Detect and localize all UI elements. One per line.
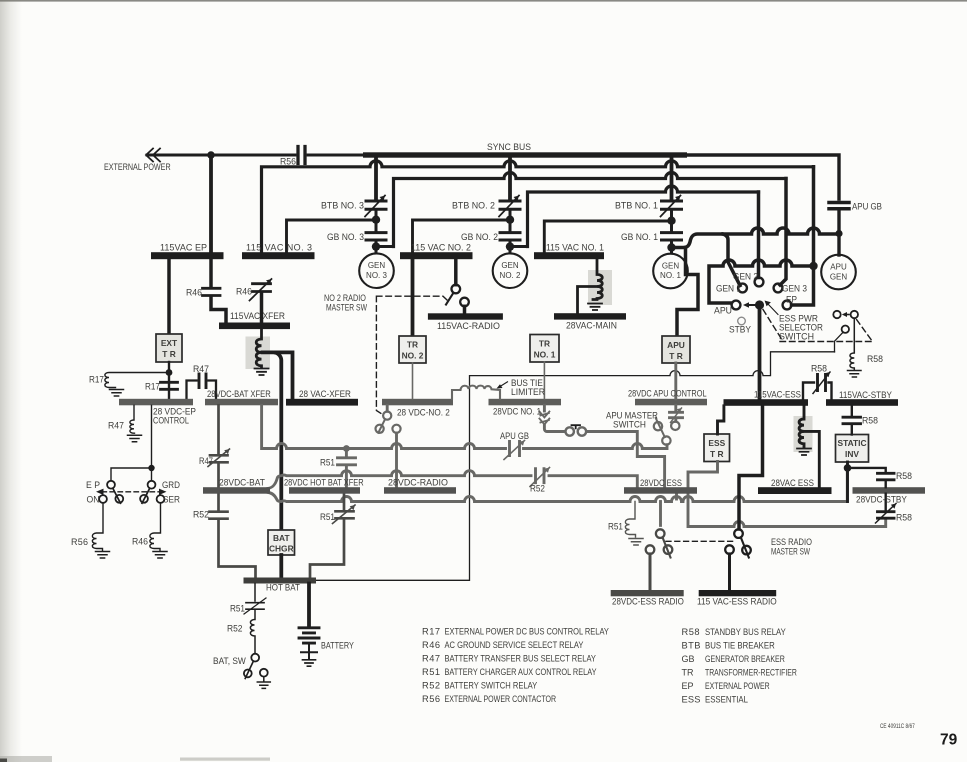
svg-text:R58: R58	[896, 512, 912, 522]
node gnd service	[148, 465, 154, 471]
svg-text:ON: ON	[87, 494, 100, 504]
wire BTB3-GB3	[375, 210, 378, 231]
generator GEN NO. 2	[493, 253, 528, 288]
wire rail B from 28VDC-BAT bus	[268, 471, 637, 489]
generator breaker APU GB	[829, 203, 849, 209]
relay coil R47 (EP control)	[130, 405, 135, 433]
svg-text:LIMITER: LIMITER	[511, 387, 545, 397]
svg-text:115 VAC-ESS RADIO: 115 VAC-ESS RADIO	[697, 596, 777, 606]
svg-text:APU: APU	[830, 263, 847, 272]
svg-text:BTB NO. 3: BTB NO. 3	[321, 200, 364, 210]
svg-text:EXTERNAL POWER: EXTERNAL POWER	[705, 681, 770, 691]
node GB1 out	[667, 243, 675, 251]
svg-text:CHGR: CHGR	[269, 544, 294, 554]
svg-text:STATIC: STATIC	[838, 438, 867, 448]
svg-text:R56: R56	[280, 156, 296, 166]
svg-text:28VDC HOT BAT XFER: 28VDC HOT BAT XFER	[284, 478, 364, 488]
switch ESS radio master AC	[734, 529, 743, 538]
svg-text:NO. 3: NO. 3	[366, 271, 387, 280]
svg-text:R46: R46	[186, 287, 202, 297]
svg-text:GENERATOR BREAKER: GENERATOR BREAKER	[705, 654, 785, 664]
wire rail A from BAT XFER bus	[262, 405, 667, 448]
switch APU master	[671, 422, 679, 430]
relay coil R46 + ground	[150, 503, 161, 551]
selector contact GEN 2	[755, 278, 764, 287]
svg-text:GEN: GEN	[501, 261, 519, 270]
svg-text:BAT, SW: BAT, SW	[213, 656, 247, 666]
svg-text:R58: R58	[896, 471, 912, 481]
svg-text:NO. 1: NO. 1	[660, 271, 681, 280]
switch EP/ON	[107, 481, 115, 489]
transformer-rectifier TR NO. 1 box	[530, 335, 559, 363]
wire gen2 tie line y192	[528, 186, 759, 247]
bus 28 VDC-EP CONTROL	[119, 399, 193, 406]
svg-text:115VAC-ESS: 115VAC-ESS	[754, 389, 801, 400]
svg-text:BTB: BTB	[682, 641, 701, 651]
bus 28 VAC-XFER	[286, 399, 358, 406]
svg-text:R58: R58	[811, 363, 827, 373]
bus 28VDC-BAT	[203, 487, 270, 494]
svg-text:CE 40911C 8/67: CE 40911C 8/67	[880, 723, 915, 730]
wire GB1 to GEN1	[670, 240, 673, 253]
svg-text:R17: R17	[89, 374, 104, 384]
svg-text:APU: APU	[714, 305, 732, 315]
svg-text:R51: R51	[320, 457, 335, 467]
svg-text:R51: R51	[320, 512, 335, 522]
relay coil R58 (stby)	[850, 318, 854, 369]
selector contact STBY	[738, 317, 746, 325]
wire 115VAC-ESS to ESS radio switch	[739, 406, 763, 529]
wire to 28VDC-ESS RADIO bus	[649, 554, 652, 590]
relay coil R56 + ground	[92, 503, 103, 551]
node BTB3/GB3	[372, 216, 380, 224]
svg-text:GRD: GRD	[162, 480, 180, 491]
svg-text:R56: R56	[71, 537, 88, 547]
ground (battery)	[303, 660, 316, 666]
bus 28VAC ESS	[758, 487, 832, 494]
wire bus no3 riser to BTB3 node	[287, 220, 376, 252]
relay contact R51 (bat sw chain)	[254, 584, 256, 602]
wire rail C to ESS radio DC switch	[659, 502, 662, 526]
svg-text:R47: R47	[422, 654, 440, 664]
svg-text:R17: R17	[145, 381, 160, 391]
ground (R47 coil)	[128, 435, 142, 442]
wire gen1 branch to selector	[723, 234, 740, 286]
bus 115 VAC NO. 3	[242, 252, 315, 259]
ground (BAT SW)	[257, 677, 270, 689]
generator GEN NO. 3	[359, 253, 394, 288]
wire no2 bus to TR NO 2	[411, 259, 415, 336]
mech dashed link EP-GRD	[102, 491, 160, 493]
transformer-rectifier ESS TR box	[704, 434, 730, 462]
switch GRD/SER	[148, 481, 156, 489]
svg-text:E P: E P	[86, 480, 100, 490]
svg-text:SER: SER	[163, 494, 180, 504]
bus 28VDC APU CONTROL	[635, 399, 707, 406]
relay contact R52 (BAT bus to HOT BAT)	[217, 494, 220, 510]
svg-text:NO. 1: NO. 1	[534, 350, 556, 360]
wire gen3 tie line y178.5	[394, 173, 787, 247]
wire TR NO 2 to bus	[412, 363, 414, 399]
svg-text:79: 79	[940, 732, 958, 749]
svg-text:28VAC ESS: 28VAC ESS	[771, 477, 814, 488]
wire XFER tap to chgr and 28VAC-XFER	[263, 352, 282, 530]
ground (MAIN transformer)	[588, 304, 602, 311]
relay contact R51 to HOT BAT XFER bus	[338, 449, 356, 488]
transformer-rectifier EXT TR box	[156, 334, 182, 362]
wire GB3 to GEN3	[375, 240, 378, 253]
selector contact GEN 3	[774, 284, 783, 293]
svg-text:SWITCH: SWITCH	[613, 419, 646, 429]
bus 115 VAC NO. 1	[534, 252, 604, 259]
relay contact (APU master, arrow)	[670, 412, 683, 417]
arrow bus tie limiter	[500, 382, 508, 387]
bus 28VDC HOT BAT XFER	[289, 487, 360, 494]
svg-text:NO. 2: NO. 2	[500, 271, 521, 280]
wire ESS tap to 28VAC ESS bus	[805, 431, 819, 487]
svg-text:28VDC-ESS RADIO: 28VDC-ESS RADIO	[612, 596, 684, 607]
wire BTB1-GB1	[670, 210, 673, 231]
svg-text:R17: R17	[422, 627, 440, 637]
node external power tap	[207, 151, 215, 159]
svg-text:INV: INV	[845, 449, 859, 459]
ground (XFER transformer)	[255, 369, 269, 376]
node APU GB / gen tie	[835, 230, 842, 237]
contact R58 (to 28VDC-STBY)	[848, 468, 886, 472]
svg-text:GEN 1: GEN 1	[716, 283, 741, 293]
wire sync drop gen1	[670, 157, 674, 199]
svg-text:STBY: STBY	[729, 324, 751, 334]
svg-text:EP: EP	[786, 294, 797, 304]
svg-text:115VAC EP: 115VAC EP	[160, 243, 207, 253]
selector wiper arrow to APU	[747, 304, 755, 306]
wire EP control bus to gnd service switch	[111, 405, 152, 480]
svg-text:HOT BAT: HOT BAT	[266, 582, 300, 593]
svg-text:BTB NO. 2: BTB NO. 2	[452, 200, 495, 210]
contactor R56	[298, 147, 305, 164]
svg-text:T R: T R	[669, 351, 683, 361]
svg-text:R51: R51	[230, 603, 245, 613]
svg-text:ESSENTIAL: ESSENTIAL	[705, 694, 748, 705]
wire GB2 to GEN2	[509, 240, 512, 253]
relay contact APU GB (rail A)	[510, 442, 520, 456]
bus 28VDC NO. 1	[489, 399, 562, 406]
switch ESS radio master DC	[656, 529, 665, 538]
contact R47 link EP control to BAT XFER	[187, 381, 217, 399]
wire MAIN tap to 28VAC-MAIN bus	[578, 287, 597, 314]
static inverter box	[836, 435, 869, 463]
node BTB2/GB2	[506, 216, 514, 224]
wire gen3 feed drop	[780, 179, 786, 286]
bus HOT BAT	[244, 578, 317, 584]
ground (ESS transformer)	[797, 449, 811, 456]
wire APU TR zigzag from GB1 line	[677, 248, 698, 337]
node rail A / R51	[343, 445, 350, 452]
wire BAT CHGR to HOT BAT	[279, 555, 283, 578]
contact R58 arrow (28VDC-STBY to rail D)	[885, 494, 887, 510]
bus 115VAC-ESS	[724, 399, 809, 406]
stby switch arrow	[846, 314, 849, 316]
wire bus NO1 breaker chevrons	[543, 405, 546, 411]
wire gen2 tie to GB2 node	[510, 245, 528, 248]
svg-text:AC GROUND SERVICE SELECT RELAY: AC GROUND SERVICE SELECT RELAY	[445, 639, 584, 650]
switch 115VAC radio master (AC)	[452, 285, 461, 294]
svg-text:BUS TIE BREAKER: BUS TIE BREAKER	[705, 640, 775, 651]
breaker GB NO. 3	[366, 233, 386, 240]
wire R46 no3 to XFER bus	[260, 293, 264, 323]
svg-text:APU GB: APU GB	[500, 430, 529, 441]
svg-text:R47: R47	[108, 420, 124, 430]
svg-text:T R: T R	[162, 349, 176, 359]
svg-text:115 VAC NO. 3: 115 VAC NO. 3	[246, 243, 312, 253]
svg-text:GEN: GEN	[368, 261, 386, 270]
mech dashed link ESS radio	[666, 540, 733, 542]
svg-text:NO. 2: NO. 2	[402, 351, 424, 361]
breaker BTB NO. 1	[661, 196, 682, 217]
ground (R58 coil)	[848, 371, 862, 378]
relay contact R17	[161, 382, 178, 389]
relay contact R51 (HOT BAT XFER to HOT BAT)	[343, 494, 346, 510]
svg-text:115VAC XFER: 115VAC XFER	[230, 311, 285, 321]
generator GEN NO. 1	[653, 254, 688, 289]
wire EP bus to EXT TR	[167, 259, 171, 334]
transformer 28VAC ESS (shaded)	[794, 416, 813, 452]
svg-text:R56: R56	[422, 694, 440, 704]
wire R46 to 115VAC XFER bus	[211, 297, 226, 323]
svg-text:R52: R52	[422, 681, 440, 691]
wire no2 bus to radio switch	[454, 259, 458, 285]
svg-text:R47: R47	[199, 455, 213, 466]
svg-text:BAT: BAT	[273, 533, 290, 543]
switch NO 2 radio master (DC)	[386, 405, 389, 411]
svg-text:R52: R52	[193, 509, 209, 519]
svg-text:GEN: GEN	[830, 272, 848, 281]
wire radio switch to 28VDC-RADIO bus	[395, 433, 398, 487]
svg-text:EP: EP	[682, 681, 694, 691]
mech dashed link selector to stby switch	[763, 310, 782, 340]
svg-text:115 VAC NO. 2: 115 VAC NO. 2	[411, 242, 471, 252]
wire EXT TR to node	[168, 362, 170, 399]
bus 115VAC-STBY	[826, 399, 898, 406]
wire sync drop gen2	[508, 157, 512, 199]
svg-text:EXTERNAL POWER: EXTERNAL POWER	[104, 162, 171, 172]
wire rail C from 28VDC-BAT bus	[268, 472, 847, 502]
svg-text:GB: GB	[682, 654, 695, 664]
wire bus no2 riser to BTB2 node	[413, 220, 510, 252]
wire APU GB to node	[837, 211, 840, 256]
svg-text:GB NO. 1: GB NO. 1	[621, 232, 658, 242]
wire TR NO 1 to bus	[543, 362, 545, 399]
breaker GB NO. 1	[662, 233, 682, 240]
bus 28VDC-RADIO	[384, 487, 456, 494]
bus 115 VAC NO. 2	[400, 252, 473, 259]
thin sense line hot bat to stby switch	[316, 352, 835, 581]
svg-text:28VDC NO. 1: 28VDC NO. 1	[493, 406, 541, 417]
selector wiper node	[755, 300, 764, 309]
svg-text:GB NO. 3: GB NO. 3	[327, 232, 364, 242]
relay contact R46 (EP side)	[209, 259, 213, 286]
node BTB1/GB1	[667, 217, 675, 225]
ground (R17 coil)	[110, 390, 124, 397]
svg-text:MASTER SW: MASTER SW	[326, 303, 367, 313]
bus tie limiter squiggle	[452, 386, 500, 399]
svg-text:115VAC-STBY: 115VAC-STBY	[839, 390, 892, 400]
connector circles (bus tie)	[566, 427, 574, 435]
bus 28 VDC-NO. 2	[382, 399, 453, 406]
svg-text:APU: APU	[667, 340, 685, 350]
svg-text:R47: R47	[193, 364, 209, 374]
svg-text:GEN 2: GEN 2	[733, 271, 758, 281]
node GB3 out	[372, 242, 380, 250]
svg-text:28 VAC-XFER: 28 VAC-XFER	[299, 389, 351, 399]
svg-text:ESS: ESS	[682, 695, 701, 705]
transformer-rectifier TR NO. 2 box	[399, 336, 426, 363]
wire wiper to 115VAC-ESS bus	[758, 305, 762, 400]
relay coil R52 (bat sw chain)	[250, 611, 255, 654]
bus 28VDC ESS	[624, 487, 697, 494]
selector contact EP	[783, 301, 792, 310]
svg-text:ESS: ESS	[708, 438, 725, 448]
svg-text:APU GB: APU GB	[852, 201, 882, 212]
wire APU control bus to master switch contact	[674, 405, 677, 421]
svg-text:R46: R46	[422, 640, 440, 650]
wire 115VAC-ESS to ESS TR	[718, 406, 724, 434]
wire bus no1 riser to BTB1 node	[544, 221, 669, 253]
svg-text:R51: R51	[422, 667, 440, 677]
svg-text:28VDC-BAT: 28VDC-BAT	[219, 477, 266, 487]
selector label leader arrow	[768, 304, 779, 315]
external power arrow	[146, 149, 160, 162]
wire stby lever to hot-bat sense line	[835, 332, 844, 352]
svg-text:R58: R58	[867, 354, 883, 364]
bus 28VDC-ESS RADIO	[611, 590, 684, 596]
svg-text:R46: R46	[132, 536, 148, 546]
svg-text:SYNC BUS: SYNC BUS	[487, 142, 531, 152]
svg-text:STANDBY BUS RELAY: STANDBY BUS RELAY	[705, 626, 786, 637]
contact R58 (STBY to STATIC INV)	[851, 406, 853, 415]
svg-text:115 VAC NO. 1: 115 VAC NO. 1	[546, 242, 604, 252]
wire STATIC INV out node	[846, 462, 849, 502]
wire BTB2-GB2	[509, 210, 512, 231]
wire EP feed drop	[792, 167, 814, 305]
bus 115 VAC-ESS RADIO	[699, 590, 777, 596]
wire XFER EP feed line y167	[262, 161, 814, 252]
wire APU TR to bus	[674, 363, 677, 399]
wire R56 to sync bus	[308, 154, 364, 157]
svg-text:R51: R51	[608, 521, 623, 531]
svg-text:28VDC-BAT XFER: 28VDC-BAT XFER	[207, 388, 271, 399]
svg-text:BATTERY SWITCH RELAY: BATTERY SWITCH RELAY	[445, 680, 538, 691]
sync bus	[363, 152, 687, 157]
svg-text:T R: T R	[710, 449, 724, 459]
stub 28VDC ESS bus to rail C	[675, 494, 678, 500]
bus 115VAC XFER	[219, 323, 290, 330]
wire EP drop to 115VAC EP bus	[209, 155, 213, 252]
wire gen2 feed drop	[757, 192, 761, 278]
svg-text:BATTERY: BATTERY	[321, 641, 354, 651]
node EP feed / y266 line	[809, 262, 817, 270]
battery	[299, 628, 319, 643]
svg-text:GEN 3: GEN 3	[782, 283, 807, 293]
svg-text:R52: R52	[530, 483, 545, 493]
wire bus tie to 28VDC ESS	[587, 432, 665, 488]
relay coil R51 (rail C) + ground	[625, 502, 635, 538]
transformer-rectifier APU TR box	[662, 336, 690, 363]
svg-text:EXTERNAL POWER CONTACTOR: EXTERNAL POWER CONTACTOR	[445, 694, 557, 704]
svg-text:28VDC-RADIO: 28VDC-RADIO	[388, 477, 448, 487]
svg-text:28 VDC-NO. 2: 28 VDC-NO. 2	[397, 407, 450, 417]
svg-text:115VAC-RADIO: 115VAC-RADIO	[437, 321, 500, 331]
svg-text:28VDC-STBY: 28VDC-STBY	[856, 494, 907, 504]
svg-text:BATTERY CHARGER AUX CONTROL RE: BATTERY CHARGER AUX CONTROL RELAY	[445, 666, 597, 677]
bus 28VDC-BAT XFER	[205, 399, 278, 406]
node below EXT TR	[166, 369, 173, 376]
svg-text:BATTERY TRANSFER BUS SELECT RE: BATTERY TRANSFER BUS SELECT RELAY	[445, 653, 597, 664]
svg-text:R58: R58	[682, 627, 700, 637]
bus 28VAC-MAIN	[554, 313, 626, 319]
svg-text:SWITCH: SWITCH	[779, 331, 814, 341]
bus 115VAC-RADIO	[428, 313, 503, 319]
svg-text:GEN: GEN	[662, 262, 680, 271]
ground (R56 coil)	[96, 552, 110, 559]
wire GB1 node to APU GB tie y234	[672, 228, 840, 248]
wire rail D stby tie	[688, 462, 886, 527]
wire sync drop gen3	[374, 157, 378, 199]
svg-text:GB NO. 2: GB NO. 2	[461, 232, 498, 242]
breaker BTB NO. 2	[499, 196, 520, 217]
svg-text:28VAC-MAIN: 28VAC-MAIN	[566, 320, 617, 330]
bus 28VDC-STBY	[853, 487, 926, 494]
node GB2 out	[506, 242, 514, 250]
wire battery feed	[307, 584, 311, 628]
svg-text:28VDC ESS: 28VDC ESS	[640, 477, 682, 488]
selector contact GEN 1	[738, 284, 747, 293]
relay contact R52 (rail B)	[536, 469, 545, 483]
svg-text:R58: R58	[862, 415, 878, 425]
wire external power to R56	[147, 154, 295, 157]
stby transfer switch contacts	[833, 311, 840, 318]
switch BAT SW	[251, 654, 259, 662]
wire sync bus right extension	[686, 155, 839, 199]
selector contact APU	[732, 301, 741, 310]
svg-text:R52: R52	[227, 623, 243, 633]
svg-text:BTB NO. 1: BTB NO. 1	[615, 200, 658, 210]
svg-text:MASTER SW: MASTER SW	[771, 546, 810, 556]
breaker BTB NO. 3	[365, 196, 386, 217]
relay contact R47 (BAT XFER to BAT bus)	[217, 405, 220, 453]
svg-text:TR: TR	[682, 667, 694, 677]
battery charger BAT CHGR box	[268, 530, 295, 555]
svg-text:TR: TR	[407, 340, 418, 350]
transformer 115VAC XFER (shaded)	[246, 337, 271, 370]
svg-text:TR: TR	[539, 339, 550, 349]
ground (R46 coil)	[153, 552, 167, 559]
relay coil R17 + wire	[105, 373, 166, 388]
svg-text:28VDC APU CONTROL: 28VDC APU CONTROL	[628, 389, 707, 399]
wire selector tie y266	[709, 260, 814, 303]
generator APU GEN	[821, 255, 856, 290]
svg-text:TRANSFORMER-RECTIFIER: TRANSFORMER-RECTIFIER	[705, 668, 797, 678]
wire gen3 tie to GB3 node	[377, 245, 394, 248]
contact R58 (ESS to STBY)	[803, 383, 814, 400]
svg-text:EXT: EXT	[161, 338, 178, 348]
svg-text:CONTROL: CONTROL	[153, 416, 189, 426]
wire to 115VAC-RADIO bus	[463, 306, 467, 313]
transformer 28VAC-MAIN (shaded)	[588, 270, 612, 305]
relay contact R46 (no3 side)	[253, 284, 271, 292]
svg-text:R46: R46	[236, 286, 252, 296]
dashed box NO 2 RADIO MASTER SW	[376, 296, 447, 415]
